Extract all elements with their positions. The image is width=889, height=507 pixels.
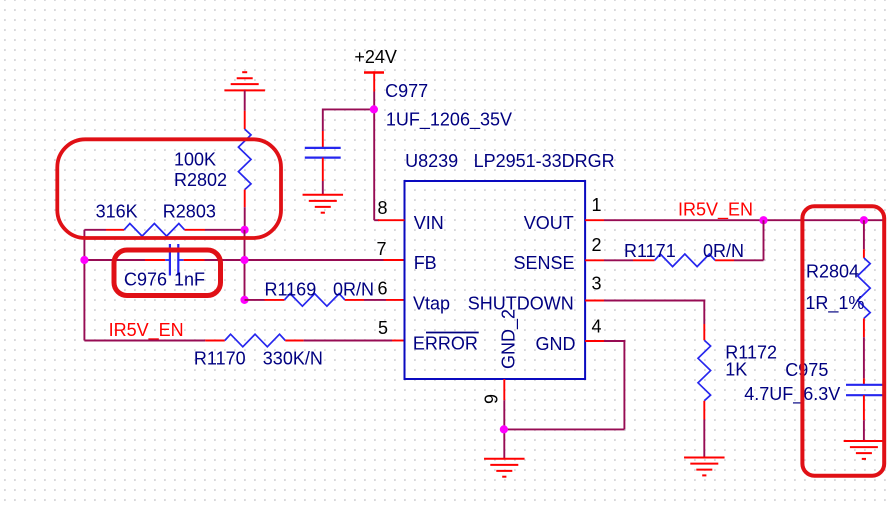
- pin number 4: [592, 317, 602, 337]
- value 0R/N (R1169): [333, 280, 374, 300]
- label R2802: [174, 170, 227, 190]
- ground under C975: [844, 441, 885, 459]
- svg-text:1K: 1K: [725, 359, 747, 379]
- annotation rect around R2802/R2803: [57, 139, 281, 238]
- svg-text:R1169: R1169: [265, 280, 317, 300]
- svg-text:0R/N: 0R/N: [703, 241, 744, 261]
- pin label ERROR with overline: [413, 333, 479, 354]
- ground (inverted) above R2802: [224, 72, 265, 90]
- svg-text:1R_1%: 1R_1%: [805, 293, 864, 314]
- svg-text:C977: C977: [385, 81, 428, 101]
- wire pin9 to ground: [503, 400, 505, 459]
- resistor R1171: [585, 254, 763, 267]
- svg-text:330K/N: 330K/N: [263, 348, 323, 368]
- svg-text:GND: GND: [536, 334, 576, 354]
- svg-text:FB: FB: [414, 253, 437, 273]
- value 0R/N (R1171): [703, 241, 744, 261]
- pin label FB: [414, 253, 437, 273]
- value 4.7UF_6.3V: [744, 384, 840, 405]
- svg-text:SENSE: SENSE: [513, 253, 574, 273]
- svg-text:4: 4: [592, 317, 602, 337]
- resistor R2804: [858, 220, 871, 378]
- label C976: [124, 270, 167, 290]
- resistor R1172: [698, 324, 711, 458]
- pin 6 stub: [386, 299, 405, 301]
- annotation rect around C976: [114, 250, 221, 296]
- wire +24V vertical to VIN: [373, 92, 375, 221]
- svg-text:IR5V_EN: IR5V_EN: [678, 200, 753, 221]
- pin 5 stub: [392, 340, 405, 342]
- pin number 1: [592, 195, 602, 215]
- svg-text:LP2951-33DRGR: LP2951-33DRGR: [474, 151, 615, 171]
- node FB-mid tee: [240, 256, 248, 264]
- wire FB line: [84, 259, 383, 261]
- svg-text:9: 9: [482, 394, 502, 404]
- svg-text:R2803: R2803: [163, 202, 216, 222]
- svg-text:ERROR: ERROR: [413, 334, 478, 354]
- label LP2951-33DRGR: [474, 151, 615, 171]
- node +24V/C977/VIN junction: [370, 105, 378, 113]
- svg-text:2: 2: [592, 235, 602, 255]
- svg-text:R1171: R1171: [624, 241, 676, 261]
- svg-text:SHUTDOWN: SHUTDOWN: [468, 294, 574, 314]
- node Vtap tee: [240, 296, 248, 304]
- resistor R2802: [238, 111, 251, 230]
- wire GND pin4 net: [504, 341, 626, 429]
- svg-text:8: 8: [377, 198, 387, 218]
- svg-text:3: 3: [592, 274, 602, 294]
- wire SHUTDOWN net: [585, 301, 705, 325]
- svg-text:Vtap: Vtap: [413, 294, 450, 314]
- node FB-left tee: [80, 256, 88, 264]
- svg-text:0R/N: 0R/N: [333, 280, 374, 300]
- value 1UF_1206_35V: [386, 110, 512, 131]
- svg-text:IR5V_EN: IR5V_EN: [109, 320, 184, 341]
- svg-text:R2802: R2802: [174, 170, 227, 190]
- net label +24V: [354, 47, 397, 67]
- svg-text:1UF_1206_35V: 1UF_1206_35V: [386, 110, 512, 131]
- label R2804: [806, 262, 859, 282]
- svg-text:5: 5: [378, 318, 388, 338]
- net label IR5V_EN (left): [109, 320, 184, 341]
- pin label VOUT: [524, 213, 574, 233]
- value 1nF: [174, 270, 205, 290]
- node pin9/pin4 junction: [500, 425, 508, 433]
- wire junction to C977 branch: [323, 109, 374, 132]
- label R1172: [725, 343, 777, 363]
- svg-text:GND_2: GND_2: [499, 309, 520, 369]
- svg-text:C976: C976: [124, 270, 167, 290]
- wire FB-left vertical: [83, 230, 85, 341]
- pin 7 stub: [384, 259, 405, 261]
- pin number 5: [378, 318, 388, 338]
- pin label SENSE: [513, 253, 574, 273]
- svg-text:316K: 316K: [96, 202, 138, 222]
- svg-text:R1170: R1170: [194, 348, 246, 368]
- pin label Vtap: [413, 294, 450, 314]
- svg-text:C975: C975: [785, 360, 828, 380]
- node VOUT/R2804 tee: [860, 216, 868, 224]
- svg-text:1: 1: [592, 195, 602, 215]
- value 1R_1%: [805, 293, 864, 314]
- pin label SHUTDOWN: [468, 294, 574, 314]
- resistor R1170: [84, 334, 392, 347]
- svg-text:U8239: U8239: [405, 151, 458, 171]
- label R1171: [624, 241, 676, 261]
- capacitor C975: [846, 378, 883, 441]
- label R1170: [194, 348, 246, 368]
- wire VOUT net: [585, 219, 883, 221]
- svg-text:VOUT: VOUT: [524, 213, 574, 233]
- label R1169: [265, 280, 317, 300]
- svg-text:100K: 100K: [174, 150, 216, 170]
- node VOUT/R1171 tee: [759, 216, 767, 224]
- wire ground to R2802: [244, 90, 246, 110]
- annotation rect around R2804/C975: [802, 206, 884, 475]
- capacitor C977: [305, 131, 341, 195]
- value 330K/N: [263, 348, 323, 368]
- label 316K: [96, 202, 138, 222]
- resistor R2803: [84, 224, 244, 237]
- label 100K: [174, 150, 216, 170]
- pin number 9 (rotated): [482, 394, 502, 404]
- svg-text:7: 7: [376, 239, 386, 259]
- pin number 3: [592, 274, 602, 294]
- svg-text:4.7UF_6.3V: 4.7UF_6.3V: [744, 384, 840, 405]
- regulator U8239 box: [405, 181, 586, 379]
- pin number 8: [377, 198, 387, 218]
- label U8239: [405, 151, 458, 171]
- pin 8 stub: [374, 219, 404, 221]
- pin label GND_2 (rotated): [499, 309, 520, 369]
- svg-text:R2804: R2804: [806, 262, 859, 282]
- pin number 2: [592, 235, 602, 255]
- power +24V symbol: [364, 71, 384, 91]
- pin label VIN: [414, 213, 444, 233]
- pin label GND: [536, 334, 576, 354]
- pin number 7: [376, 239, 386, 259]
- node R2802/R2803 junction: [241, 226, 249, 234]
- pin number 6: [377, 279, 387, 299]
- svg-text:1nF: 1nF: [174, 270, 205, 290]
- label R2803: [163, 202, 216, 222]
- wire R2802 junction down to Vtap: [244, 230, 246, 300]
- svg-text:+24V: +24V: [354, 47, 397, 67]
- value 1K: [725, 359, 747, 379]
- label C975: [785, 360, 828, 380]
- pin 9 stub: [503, 379, 505, 400]
- svg-text:VIN: VIN: [414, 213, 444, 233]
- label C977: [385, 81, 428, 101]
- ground under C977: [303, 195, 344, 213]
- capacitor C976: [165, 244, 183, 276]
- svg-text:6: 6: [377, 279, 387, 299]
- net label IR5V_EN (right): [678, 200, 753, 221]
- ground under pin 9: [484, 459, 525, 477]
- ground under R1172: [684, 458, 725, 476]
- wire R1171 up to VOUT: [763, 220, 765, 260]
- resistor R1169: [245, 294, 387, 307]
